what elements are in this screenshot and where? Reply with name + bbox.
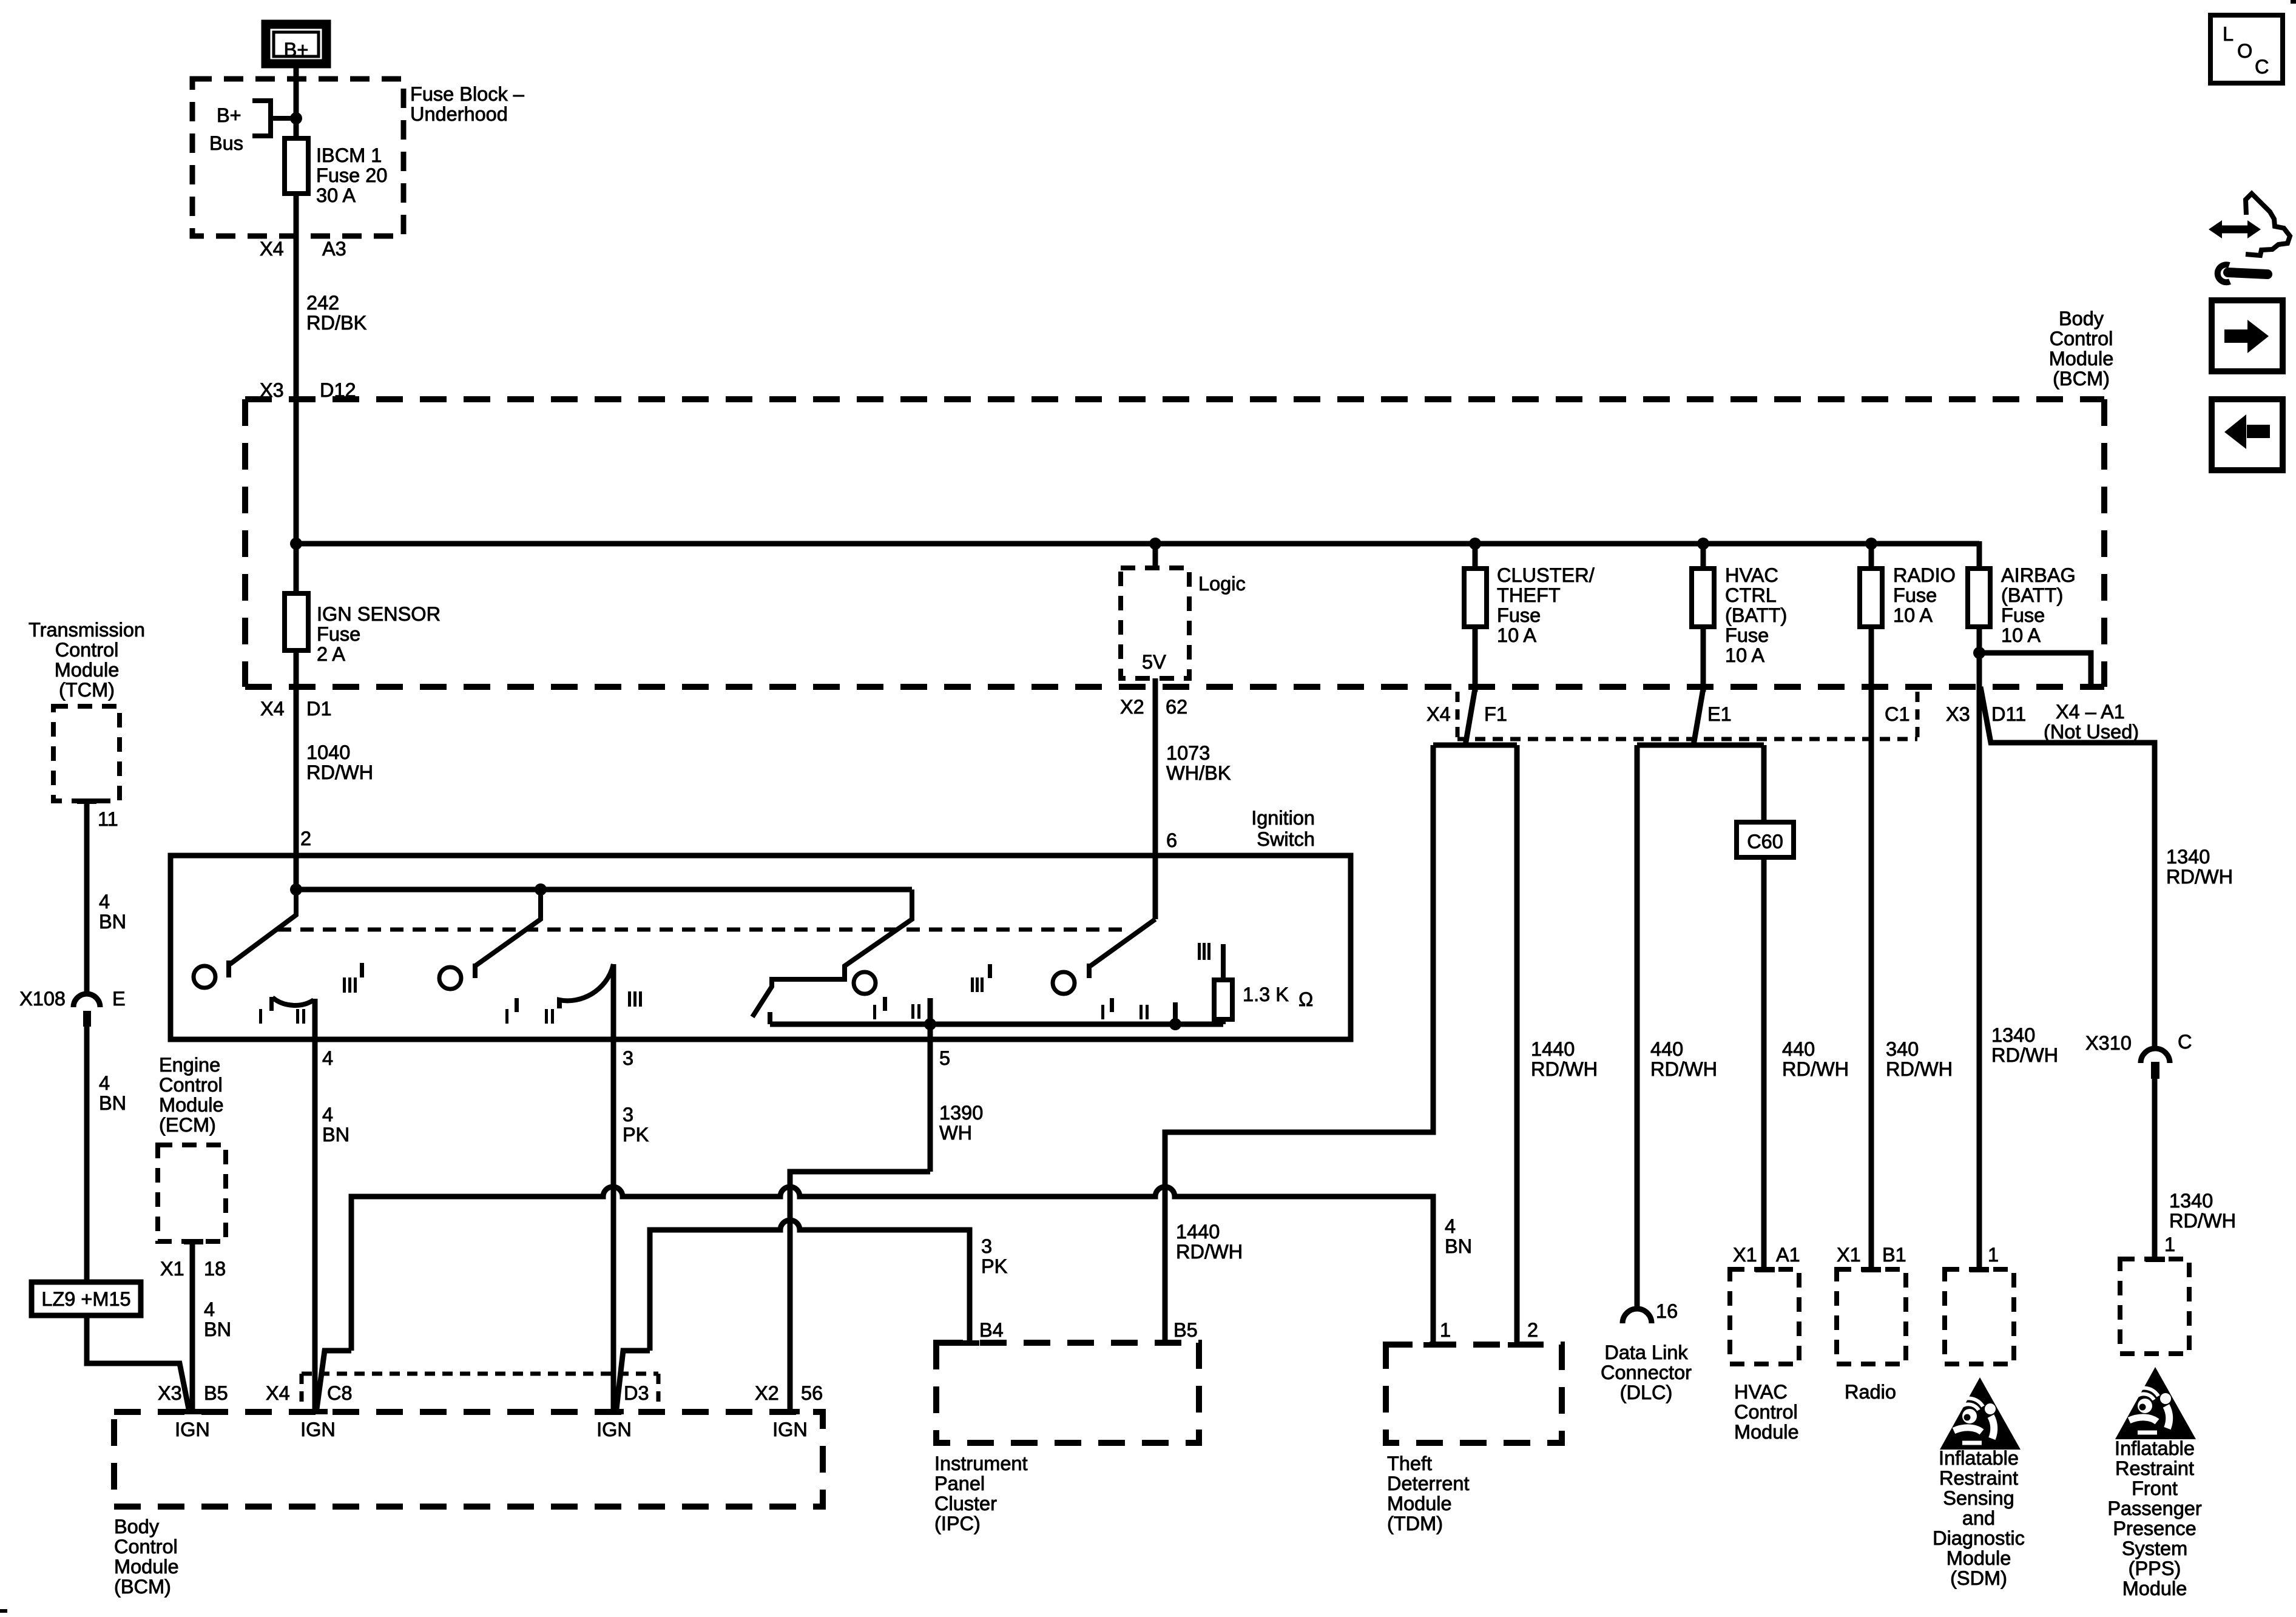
svg-text:Ω: Ω bbox=[1298, 988, 1313, 1010]
Fuse Block - Underhood box bbox=[192, 79, 403, 236]
label HVAC Control Module bbox=[1734, 1381, 1799, 1443]
svg-text:C: C bbox=[2178, 1031, 2192, 1053]
svg-text:3: 3 bbox=[981, 1235, 992, 1257]
svg-text:B4: B4 bbox=[979, 1319, 1004, 1341]
pin tick BCM C8 bbox=[308, 1409, 328, 1414]
svg-text:RD/WH: RD/WH bbox=[2166, 866, 2233, 888]
svg-text:X4: X4 bbox=[260, 698, 285, 720]
svg-text:C1: C1 bbox=[1885, 703, 1910, 725]
fuse IBCM 1 Fuse 20 30 A bbox=[285, 138, 387, 236]
svg-text:Presence: Presence bbox=[2113, 1517, 2196, 1539]
ignition switch internal bus bbox=[296, 887, 912, 893]
svg-text:THEFT: THEFT bbox=[1497, 584, 1561, 606]
wire 242 RD/BK bbox=[296, 236, 367, 399]
wire ignition pin 4 bbox=[315, 999, 349, 1409]
pin labels X3 D12 bbox=[260, 379, 356, 401]
wire TCM pin 11 down (4 BN) bbox=[87, 801, 126, 994]
svg-text:(PPS): (PPS) bbox=[2129, 1558, 2181, 1579]
svg-text:Module: Module bbox=[2122, 1578, 2187, 1599]
svg-text:BN: BN bbox=[322, 1124, 349, 1146]
svg-text:AIRBAG: AIRBAG bbox=[2001, 564, 2076, 586]
svg-text:IGN: IGN bbox=[772, 1419, 808, 1440]
legend right arrow box bbox=[2212, 300, 2283, 371]
svg-text:WH/BK: WH/BK bbox=[1166, 762, 1231, 784]
connector C60 bbox=[1737, 822, 1794, 857]
pin labels X4 A3 bbox=[260, 238, 346, 260]
svg-text:Instrument: Instrument bbox=[934, 1453, 1028, 1474]
position marks pole B bbox=[505, 991, 642, 1024]
svg-text:RADIO: RADIO bbox=[1893, 564, 1956, 586]
wire branch into BCM C8 bbox=[317, 1351, 351, 1409]
fuse RADIO 10 A bbox=[1860, 544, 1956, 1267]
svg-text:B1: B1 bbox=[1882, 1244, 1906, 1266]
battery terminal B+ bbox=[266, 24, 326, 64]
svg-text:2: 2 bbox=[300, 828, 311, 849]
svg-text:Panel: Panel bbox=[934, 1473, 985, 1494]
svg-text:Logic: Logic bbox=[1198, 573, 1246, 595]
svg-text:IGN: IGN bbox=[596, 1419, 632, 1440]
svg-text:Body: Body bbox=[2059, 308, 2104, 329]
svg-text:5V: 5V bbox=[1142, 651, 1166, 673]
svg-text:X310: X310 bbox=[2085, 1032, 2132, 1054]
Transmission Control Module box bbox=[53, 706, 120, 801]
BCM internal supply bus bbox=[296, 541, 1979, 547]
svg-text:Fuse: Fuse bbox=[2001, 604, 2045, 626]
Inflatable Restraint Front Passenger Presence System Module box bbox=[2120, 1259, 2189, 1354]
svg-text:1390: 1390 bbox=[939, 1102, 983, 1124]
svg-text:Ignition: Ignition bbox=[1251, 807, 1315, 829]
wire 1040 RD/WH to ignition switch pin 2 bbox=[296, 687, 373, 890]
svg-text:(IPC): (IPC) bbox=[934, 1513, 981, 1534]
Radio box bbox=[1837, 1269, 1906, 1364]
label Body Control Module (BCM) top-right bbox=[2049, 308, 2114, 390]
pin 11 tick TCM bbox=[77, 798, 96, 804]
pin labels X1 A1 bbox=[1733, 1244, 1800, 1266]
svg-text:C: C bbox=[2255, 56, 2269, 78]
wire CLUSTER/THEFT fuse F1 split bbox=[1433, 689, 1517, 745]
wire 3 PK label at IPC B4 bbox=[981, 1235, 1008, 1277]
position marks pole D bbox=[1101, 943, 1210, 1024]
svg-text:1340: 1340 bbox=[2166, 846, 2210, 868]
wire X108 down (4 BN) bbox=[87, 1027, 126, 1282]
pin 18 tick ECM bbox=[184, 1239, 203, 1244]
svg-text:Underhood: Underhood bbox=[410, 103, 508, 125]
junction dot internal bus pin2 bbox=[290, 883, 302, 896]
service icon wrench bbox=[2218, 265, 2267, 282]
fuse IGN SENSOR 2 A bbox=[285, 544, 441, 687]
svg-text:440: 440 bbox=[1650, 1038, 1683, 1060]
pin tick IPC B4 bbox=[960, 1340, 979, 1346]
svg-text:62: 62 bbox=[1166, 696, 1187, 718]
junction dot on B+ bus bbox=[290, 112, 302, 124]
svg-text:D11: D11 bbox=[1991, 703, 2026, 725]
wire LZ9 to BCM B5 bbox=[87, 1315, 189, 1409]
pin labels X4 D1 bbox=[260, 698, 332, 720]
svg-text:WH: WH bbox=[939, 1122, 972, 1144]
Inflatable Restraint Sensing and Diagnostic Module box bbox=[1945, 1269, 2014, 1364]
switch pole C contact bbox=[854, 972, 876, 994]
svg-text:(DLC): (DLC) bbox=[1620, 1382, 1673, 1403]
svg-text:Inflatable: Inflatable bbox=[2115, 1437, 2195, 1459]
node B+ Bus tap bbox=[209, 101, 296, 154]
accessory contact rail bbox=[770, 1012, 1223, 1024]
svg-text:O: O bbox=[2237, 40, 2252, 62]
svg-text:HVAC: HVAC bbox=[1734, 1381, 1788, 1403]
svg-text:Switch: Switch bbox=[1257, 828, 1315, 850]
svg-text:Control: Control bbox=[114, 1536, 178, 1558]
position arc pole A bbox=[272, 998, 314, 1005]
BCM X4 connector notch lower bbox=[302, 1374, 658, 1409]
svg-text:IGN: IGN bbox=[175, 1419, 210, 1440]
svg-text:Fuse: Fuse bbox=[1725, 624, 1769, 646]
svg-text:Transmission: Transmission bbox=[29, 619, 145, 641]
pin tick HVAC A1 bbox=[1755, 1267, 1775, 1272]
resistor 1.3 Kohm bbox=[1214, 944, 1313, 1024]
svg-text:D3: D3 bbox=[624, 1382, 649, 1404]
svg-text:1073: 1073 bbox=[1166, 742, 1210, 764]
svg-text:X2: X2 bbox=[755, 1382, 779, 1404]
wire 1073 WH/BK label bbox=[1166, 742, 1231, 784]
svg-text:X4 – A1: X4 – A1 bbox=[2056, 701, 2125, 723]
wire 1340 RD/WH to SDM bbox=[1979, 653, 2058, 1267]
svg-text:Fuse 20: Fuse 20 bbox=[316, 164, 387, 186]
Ignition Switch box bbox=[171, 856, 1351, 1039]
junction dot below AIRBAG fuse bbox=[1973, 647, 1985, 659]
svg-text:Bus: Bus bbox=[209, 132, 243, 154]
svg-text:BN: BN bbox=[1445, 1235, 1472, 1257]
svg-text:CTRL: CTRL bbox=[1725, 584, 1777, 606]
label Inflatable Restraint Front Passenger Presence System (PPS) Module bbox=[2107, 1437, 2202, 1599]
svg-text:Module: Module bbox=[1947, 1547, 2011, 1569]
svg-text:Diagnostic: Diagnostic bbox=[1933, 1527, 2025, 1549]
wire 4 BN label at TDM pin1 bbox=[1445, 1215, 1472, 1257]
svg-text:(BCM): (BCM) bbox=[2053, 368, 2110, 390]
Theft Deterrent Module box bbox=[1386, 1345, 1562, 1443]
svg-text:340: 340 bbox=[1886, 1038, 1919, 1060]
svg-text:X1: X1 bbox=[1837, 1244, 1861, 1266]
svg-text:30 A: 30 A bbox=[316, 184, 356, 206]
wire HVAC CTRL fuse E1 split bbox=[1637, 689, 1764, 745]
svg-text:A3: A3 bbox=[322, 238, 346, 260]
svg-text:LZ9 +M15: LZ9 +M15 bbox=[41, 1288, 130, 1310]
wire 4 BN ignition pin4 branch to TDM pin1 bbox=[351, 1187, 1433, 1351]
svg-text:5: 5 bbox=[939, 1047, 950, 1069]
label Body Control Module (BCM) bottom bbox=[114, 1516, 179, 1598]
svg-text:440: 440 bbox=[1782, 1038, 1815, 1060]
service icon panel outline bbox=[2246, 194, 2290, 255]
pin labels 1 2 bbox=[1440, 1319, 1538, 1341]
svg-text:2 A: 2 A bbox=[317, 643, 345, 665]
svg-text:E: E bbox=[112, 988, 126, 1010]
label Engine Control Module (ECM) bbox=[159, 1054, 224, 1136]
svg-text:X3: X3 bbox=[158, 1382, 182, 1404]
airbag warning triangle PPS bbox=[2115, 1367, 2196, 1439]
service icon double arrow bbox=[2209, 220, 2261, 238]
svg-text:10 A: 10 A bbox=[1725, 644, 1764, 666]
svg-text:E1: E1 bbox=[1707, 703, 1732, 725]
svg-text:4: 4 bbox=[322, 1047, 333, 1069]
svg-text:1.3 K: 1.3 K bbox=[1243, 984, 1289, 1005]
BCM lower pin labels X4 F1 E1 C1 X3 D11 X4-A1 bbox=[1427, 701, 2139, 743]
svg-text:1340: 1340 bbox=[2169, 1190, 2213, 1212]
svg-text:(BCM): (BCM) bbox=[114, 1576, 171, 1598]
pin tick BCM B5 bbox=[183, 1409, 202, 1414]
svg-text:(ECM): (ECM) bbox=[159, 1114, 216, 1136]
wire stub to X4 - A1 not used bbox=[1979, 653, 2091, 686]
junction dot rail pin 5 bbox=[924, 1018, 936, 1030]
svg-text:1440: 1440 bbox=[1531, 1038, 1575, 1060]
svg-text:X4: X4 bbox=[1427, 703, 1451, 725]
svg-text:B+: B+ bbox=[284, 39, 309, 61]
svg-text:10 A: 10 A bbox=[2001, 624, 2041, 646]
pin tick Radio B1 bbox=[1862, 1267, 1881, 1272]
svg-text:4: 4 bbox=[99, 1072, 110, 1094]
wire 1340 RD/WH from D11 to PPS bbox=[1980, 687, 2233, 1049]
svg-text:Module: Module bbox=[55, 659, 120, 681]
svg-text:Connector: Connector bbox=[1601, 1362, 1692, 1383]
svg-text:A1: A1 bbox=[1776, 1244, 1800, 1266]
switch pole B contact bbox=[439, 967, 461, 989]
Engine Control Module box bbox=[158, 1145, 226, 1241]
junction dot bus at CLUSTER/THEFT fuse bbox=[1469, 538, 1481, 550]
svg-text:X4: X4 bbox=[266, 1382, 290, 1404]
svg-text:Data Link: Data Link bbox=[1604, 1342, 1688, 1363]
svg-text:4: 4 bbox=[322, 1104, 333, 1126]
svg-text:Module: Module bbox=[114, 1556, 179, 1578]
svg-text:Passenger: Passenger bbox=[2107, 1497, 2202, 1519]
svg-text:BN: BN bbox=[204, 1318, 231, 1340]
svg-text:IGN: IGN bbox=[300, 1419, 336, 1440]
label Ignition Switch bbox=[1251, 807, 1315, 850]
pin tick SDM 1 bbox=[1970, 1267, 1989, 1272]
svg-text:Inflatable: Inflatable bbox=[1939, 1447, 2019, 1469]
wire branch into BCM D3 bbox=[616, 1351, 650, 1409]
svg-text:Body: Body bbox=[114, 1516, 160, 1538]
switch pole D blade bbox=[1089, 919, 1155, 978]
HVAC Control Module box bbox=[1730, 1269, 1799, 1364]
svg-text:BN: BN bbox=[99, 911, 126, 933]
svg-text:and: and bbox=[1962, 1507, 1995, 1529]
svg-text:B5: B5 bbox=[1173, 1319, 1198, 1341]
svg-text:Radio: Radio bbox=[1845, 1381, 1896, 1403]
svg-text:Restraint: Restraint bbox=[2115, 1457, 2194, 1479]
svg-text:(TCM): (TCM) bbox=[59, 679, 115, 701]
BCM lower pin labels bbox=[158, 1382, 823, 1404]
svg-text:Control: Control bbox=[2050, 328, 2113, 349]
svg-text:(BATT): (BATT) bbox=[1725, 604, 1787, 626]
svg-text:1040: 1040 bbox=[306, 741, 350, 763]
svg-text:C60: C60 bbox=[1747, 831, 1783, 852]
label Transmission Control Module (TCM) bbox=[29, 619, 145, 701]
fuse CLUSTER/THEFT 10 A bbox=[1464, 544, 1595, 692]
wire ignition pin 3 bbox=[613, 964, 649, 1409]
svg-text:Cluster: Cluster bbox=[934, 1493, 997, 1514]
svg-text:HVAC: HVAC bbox=[1725, 564, 1778, 586]
position marks pole C bbox=[873, 964, 992, 1019]
wire 5V logic to X2 62 bbox=[1153, 678, 1158, 856]
svg-text:2: 2 bbox=[1527, 1319, 1538, 1341]
connector DLC pin 16 bbox=[1622, 1300, 1678, 1323]
svg-text:Restraint: Restraint bbox=[1939, 1467, 2018, 1489]
svg-text:1440: 1440 bbox=[1176, 1221, 1220, 1243]
svg-text:Control: Control bbox=[1734, 1401, 1798, 1423]
svg-text:(SDM): (SDM) bbox=[1950, 1567, 2007, 1589]
legend box LOC bbox=[2210, 15, 2283, 83]
pin tick BCM 56 bbox=[780, 1409, 800, 1414]
pin labels B4 B5 bbox=[979, 1319, 1198, 1341]
airbag warning triangle SDM bbox=[1940, 1377, 2021, 1450]
fuse HVAC CTRL (BATT) 10 A bbox=[1692, 544, 1787, 692]
svg-text:Fuse Block –: Fuse Block – bbox=[410, 83, 525, 105]
page corner mark top right bbox=[2291, 0, 2296, 4]
svg-text:Module: Module bbox=[2049, 348, 2114, 370]
svg-text:10 A: 10 A bbox=[1497, 624, 1536, 646]
page corner mark bottom left bbox=[0, 1609, 7, 1613]
svg-text:242: 242 bbox=[306, 292, 339, 314]
svg-text:RD/WH: RD/WH bbox=[1176, 1241, 1243, 1263]
svg-text:IGN SENSOR: IGN SENSOR bbox=[317, 603, 441, 625]
svg-text:1: 1 bbox=[2164, 1234, 2175, 1255]
label Inflatable Restraint Sensing and Diagnostic Module (SDM) bbox=[1933, 1447, 2025, 1589]
wire 3 PK branch to IPC B4 bbox=[650, 1220, 970, 1351]
switch pole D contact bbox=[1053, 972, 1075, 994]
pin labels X2 62 bbox=[1120, 696, 1187, 718]
svg-text:X108: X108 bbox=[19, 988, 66, 1010]
svg-text:RD/BK: RD/BK bbox=[306, 312, 367, 334]
legend left arrow box bbox=[2212, 399, 2283, 470]
svg-text:(Not Used): (Not Used) bbox=[2044, 721, 2139, 743]
svg-text:11: 11 bbox=[98, 808, 118, 830]
svg-text:Sensing: Sensing bbox=[1943, 1487, 2014, 1509]
svg-text:4: 4 bbox=[99, 891, 110, 913]
position arc pole B bbox=[559, 964, 613, 1008]
switch pole B blade bbox=[475, 890, 541, 978]
junction dot bus at Logic branch bbox=[1149, 538, 1161, 550]
label Fuse Block - Underhood bbox=[410, 83, 525, 125]
wire 1390 WH to BCM X2 56 bbox=[790, 1172, 930, 1409]
svg-text:3: 3 bbox=[623, 1104, 633, 1126]
wire 440 RD/WH to HVAC control module bbox=[1764, 745, 1849, 1267]
switch pole C wiper bbox=[752, 890, 912, 1017]
switch pole A blade bbox=[229, 890, 296, 977]
svg-text:4: 4 bbox=[1445, 1215, 1456, 1237]
svg-text:X3: X3 bbox=[1946, 703, 1970, 725]
svg-text:System: System bbox=[2122, 1538, 2187, 1559]
svg-text:Engine: Engine bbox=[159, 1054, 220, 1076]
mechanical linkage dashed line bbox=[278, 928, 1131, 932]
svg-text:B5: B5 bbox=[204, 1382, 228, 1404]
svg-text:Deterrent: Deterrent bbox=[1387, 1473, 1469, 1494]
svg-text:Control: Control bbox=[159, 1074, 223, 1096]
svg-text:RD/WH: RD/WH bbox=[1650, 1058, 1717, 1080]
pin tick TDM 1 bbox=[1423, 1342, 1443, 1348]
option box LZ9 +M15 bbox=[32, 1282, 141, 1315]
wire 1440 RD/WH to IPC B5 bbox=[1165, 745, 1433, 1343]
wire ECM 18 to BCM B5 (4 BN) bbox=[192, 1244, 231, 1409]
svg-text:X1: X1 bbox=[1733, 1244, 1757, 1266]
svg-text:18: 18 bbox=[204, 1258, 226, 1280]
svg-text:CLUSTER/: CLUSTER/ bbox=[1497, 564, 1595, 586]
wire B+ to fuse block underhood bbox=[294, 64, 299, 138]
wire ignition pin 6 bbox=[1153, 856, 1158, 919]
fuse AIRBAG (BATT) 10 A bbox=[1968, 541, 2076, 653]
node labels IGN inside BCM bbox=[175, 1419, 808, 1440]
Instrument Panel Cluster box bbox=[936, 1343, 1199, 1443]
Logic box 5V bbox=[1121, 544, 1246, 678]
svg-text:C8: C8 bbox=[327, 1382, 353, 1404]
svg-text:X2: X2 bbox=[1120, 696, 1144, 718]
junction dot bus at D12 branch bbox=[290, 538, 302, 550]
Body Control Module (BCM) upper dashed box bbox=[245, 399, 2104, 687]
svg-text:Fuse: Fuse bbox=[317, 623, 360, 645]
wire X310 to PPS (1340 RD/WH) bbox=[2155, 1079, 2236, 1257]
svg-text:Control: Control bbox=[55, 639, 119, 661]
connector X108 pin E bbox=[19, 988, 126, 1027]
wire D12 into BCM down to bus bbox=[294, 399, 299, 544]
svg-text:Module: Module bbox=[1387, 1493, 1452, 1514]
junction dot bus at HVAC fuse bbox=[1697, 538, 1709, 550]
svg-text:X1: X1 bbox=[160, 1258, 184, 1280]
svg-text:Module: Module bbox=[159, 1094, 224, 1116]
connector X310 pin C bbox=[2085, 1031, 2192, 1079]
svg-text:4: 4 bbox=[204, 1298, 215, 1320]
wire 1440 RD/WH to TDM pin 2 bbox=[1517, 745, 1598, 1342]
pin tick BCM D3 bbox=[604, 1409, 624, 1414]
pin tick TDM 2 bbox=[1508, 1342, 1527, 1348]
svg-text:56: 56 bbox=[801, 1382, 823, 1404]
position marks pole A bbox=[259, 963, 364, 1024]
svg-text:X4: X4 bbox=[260, 238, 284, 260]
pin labels X1 B1 bbox=[1837, 1244, 1906, 1266]
switch pole A contact bbox=[194, 966, 215, 988]
Body Control Module lower dashed box bbox=[114, 1412, 823, 1507]
svg-text:PK: PK bbox=[981, 1255, 1008, 1277]
junction dot bus at RADIO fuse bbox=[1865, 538, 1877, 550]
svg-text:(TDM): (TDM) bbox=[1387, 1513, 1443, 1534]
pin tick PPS 1 bbox=[2146, 1257, 2165, 1262]
svg-text:L: L bbox=[2223, 23, 2234, 45]
svg-text:PK: PK bbox=[623, 1124, 649, 1146]
svg-text:F1: F1 bbox=[1484, 703, 1507, 725]
svg-text:Fuse: Fuse bbox=[1497, 604, 1541, 626]
pin labels X1 18 bbox=[160, 1258, 226, 1280]
svg-text:Front: Front bbox=[2132, 1477, 2178, 1499]
junction dot rail pole D bbox=[1169, 1018, 1181, 1030]
pin tick IPC B5 bbox=[1156, 1340, 1175, 1346]
svg-text:6: 6 bbox=[1166, 829, 1177, 851]
svg-text:Fuse: Fuse bbox=[1893, 584, 1937, 606]
svg-text:D1: D1 bbox=[306, 698, 332, 720]
svg-text:1340: 1340 bbox=[1991, 1024, 2035, 1046]
svg-text:Theft: Theft bbox=[1387, 1453, 1432, 1474]
svg-text:RD/WH: RD/WH bbox=[2169, 1210, 2236, 1232]
junction dot internal bus pole B bbox=[535, 883, 547, 896]
svg-text:Module: Module bbox=[1734, 1421, 1799, 1443]
svg-text:1: 1 bbox=[1988, 1244, 1999, 1266]
label Instrument Panel Cluster (IPC) bbox=[934, 1453, 1028, 1534]
svg-text:(BATT): (BATT) bbox=[2001, 584, 2063, 606]
svg-text:RD/WH: RD/WH bbox=[1531, 1058, 1598, 1080]
BCM X4 connector notch upper bbox=[1457, 692, 1917, 739]
wire ignition pin 5 (1390 WH) bbox=[930, 998, 983, 1172]
label Data Link Connector (DLC) bbox=[1601, 1342, 1692, 1403]
wire 440 RD/WH to DLC 16 bbox=[1637, 745, 1717, 1309]
svg-text:10 A: 10 A bbox=[1893, 604, 1933, 626]
svg-text:B+: B+ bbox=[217, 104, 241, 126]
svg-text:3: 3 bbox=[623, 1047, 633, 1069]
svg-text:RD/WH: RD/WH bbox=[1782, 1058, 1849, 1080]
svg-text:RD/WH: RD/WH bbox=[1991, 1044, 2058, 1066]
